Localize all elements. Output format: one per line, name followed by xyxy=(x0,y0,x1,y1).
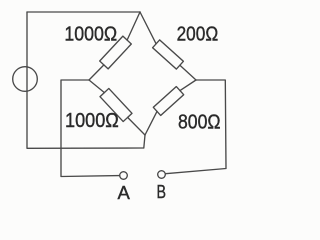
wire R1 to T xyxy=(127,12,140,40)
resistor R4 800 ohm bottom-right xyxy=(153,87,183,116)
svg-text:B: B xyxy=(157,181,167,202)
wire T to R2 xyxy=(140,12,156,44)
voltage source xyxy=(13,67,38,92)
terminal B xyxy=(158,171,166,179)
svg-text:1000Ω: 1000Ω xyxy=(65,109,119,132)
wire bottom node stub xyxy=(144,135,145,148)
svg-text:1000Ω: 1000Ω xyxy=(64,23,117,46)
terminal A xyxy=(120,172,128,180)
resistor R3 1000 ohm bottom-left xyxy=(100,88,132,121)
wire bottom source xyxy=(27,147,144,149)
wire R3 to B xyxy=(128,117,145,135)
resistor R2 200 ohm top-right xyxy=(153,40,184,69)
wire L to R1 xyxy=(89,65,104,80)
svg-text:A: A xyxy=(118,182,131,203)
wire L to R3 xyxy=(89,80,104,93)
wire left xyxy=(26,12,28,148)
resistor R1 1000 ohm top-left xyxy=(100,36,132,69)
wire R4 to R node xyxy=(180,80,196,91)
wire B to R4 xyxy=(145,111,157,135)
wire left branch to A xyxy=(61,80,120,177)
svg-text:800Ω: 800Ω xyxy=(178,111,221,134)
wire top xyxy=(27,11,140,13)
svg-text:200Ω: 200Ω xyxy=(177,23,219,46)
wire R2 to R node xyxy=(180,65,196,80)
wire right branch xyxy=(166,80,227,174)
